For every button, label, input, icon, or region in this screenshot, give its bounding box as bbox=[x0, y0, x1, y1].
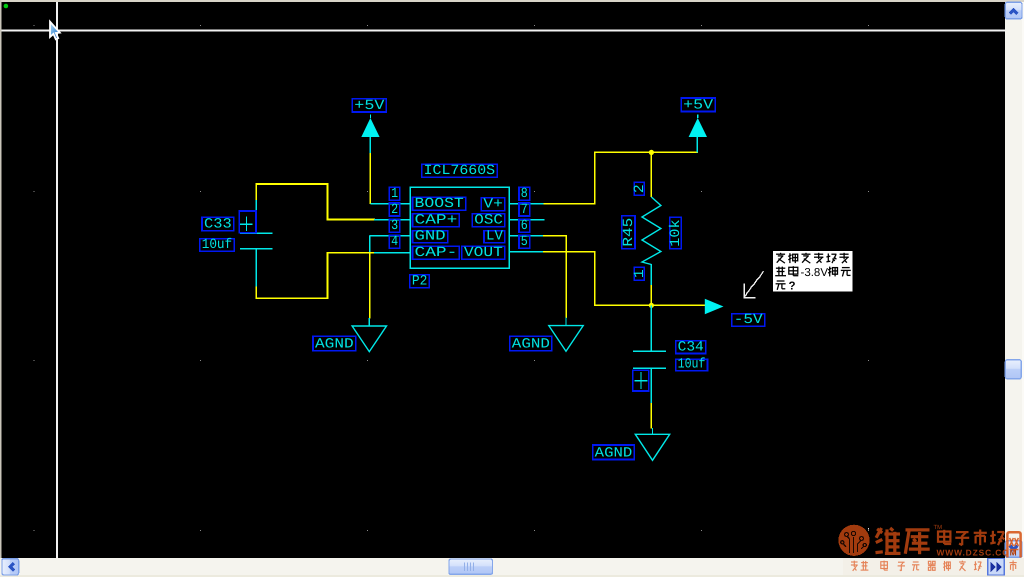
label pin number 3 bbox=[389, 219, 400, 232]
svg-text:2: 2 bbox=[632, 184, 648, 193]
wire junction to C34 bbox=[650, 305, 652, 351]
watermark bottom bar bbox=[843, 558, 1024, 575]
wire LV down to AGND bbox=[565, 235, 567, 318]
C34 polarity + bbox=[633, 370, 649, 391]
svg-text:+5V: +5V bbox=[354, 98, 385, 114]
wire C33 loop lower right vertical bbox=[327, 252, 329, 299]
svg-text:6: 6 bbox=[521, 218, 528, 234]
wire C33 loop upper right vertical bbox=[327, 183, 329, 220]
svg-text:3: 3 bbox=[391, 218, 398, 234]
svg-text:-5V: -5V bbox=[734, 312, 764, 328]
wire +5V left vertical (cyan) bbox=[369, 137, 371, 153]
pin 2 stub CAP+ bbox=[374, 219, 410, 221]
label designator C34 bbox=[676, 341, 706, 354]
pin 5 stub VOUT bbox=[509, 251, 544, 253]
wire C33 top lead upper bbox=[255, 184, 257, 201]
watermark fast-forward icon bbox=[988, 559, 1005, 575]
wire GND pin down (cyan) bbox=[369, 236, 371, 253]
junction node top of R45 bbox=[649, 150, 654, 155]
label designator C33 bbox=[202, 217, 234, 230]
svg-text:-3.8V: -3.8V bbox=[801, 267, 829, 279]
label pin name GND bbox=[413, 231, 448, 243]
svg-text:R45: R45 bbox=[621, 218, 637, 247]
label value 10k (rotated) bbox=[670, 217, 682, 248]
svg-text:2: 2 bbox=[391, 202, 398, 218]
ground AGND (middle, LV net) bbox=[549, 318, 583, 352]
watermark dzsc logo circle bbox=[838, 525, 869, 556]
svg-text:WWW.DZSC.COM: WWW.DZSC.COM bbox=[937, 547, 1018, 557]
svg-text:10k: 10k bbox=[668, 219, 684, 246]
svg-text:+5V: +5V bbox=[683, 97, 714, 113]
label pin name CAP+ bbox=[413, 214, 460, 227]
horizontal scrollbar bbox=[0, 558, 1005, 577]
label pin number 8 bbox=[519, 187, 530, 200]
grid dot over logo bbox=[868, 528, 869, 529]
svg-text:GND: GND bbox=[415, 229, 446, 245]
wire / pin 1 stub BOOST bbox=[370, 203, 410, 205]
wire C33 loop top horizontal bbox=[256, 183, 329, 185]
svg-text:CAP+: CAP+ bbox=[415, 213, 458, 229]
ground AGND (bottom, C34 net) bbox=[635, 428, 669, 460]
wire LV to AGND riser bbox=[543, 235, 567, 237]
left tan window strip bbox=[0, 0, 2, 558]
label net +5V (right) bbox=[681, 98, 715, 112]
annotation note box bbox=[773, 251, 853, 292]
label pin name VOUT bbox=[462, 246, 505, 259]
svg-text:7: 7 bbox=[521, 202, 528, 218]
watermark 电子市场 chars bbox=[938, 530, 951, 544]
wire VOUT right bbox=[543, 251, 596, 253]
ground AGND (left, C33/CAP- net) bbox=[352, 318, 386, 352]
junction node bottom of R45 bbox=[649, 303, 654, 308]
power +5V symbol (left) bbox=[361, 118, 379, 137]
label pin number 7 bbox=[519, 203, 530, 216]
pin 8 stub V+ bbox=[509, 203, 544, 205]
svg-text:AGND: AGND bbox=[315, 336, 354, 352]
label value 10uf (C33) bbox=[200, 239, 235, 252]
wire C33 bottom to pin 4 bbox=[328, 252, 375, 254]
pin 6 stub LV bbox=[509, 235, 544, 237]
label value 10uf (C34) bbox=[676, 359, 708, 371]
wire pin4 node to AGND bbox=[369, 253, 371, 319]
label resistor pin 1 (rotated) bbox=[634, 267, 644, 280]
label pin number 4 bbox=[389, 235, 400, 248]
label net AGND (middle) bbox=[510, 336, 552, 351]
svg-text:?: ? bbox=[789, 281, 796, 293]
resistor R45 top lead bbox=[650, 152, 652, 197]
svg-text:10uf: 10uf bbox=[678, 357, 706, 373]
capacitor C33 bbox=[240, 200, 273, 287]
label pin number 5 bbox=[519, 235, 530, 248]
svg-text:1: 1 bbox=[632, 269, 648, 278]
wire VOUT down bbox=[594, 252, 596, 306]
svg-text:AGND: AGND bbox=[595, 445, 633, 461]
green origin dot bbox=[4, 4, 9, 9]
wire +5V rail right bbox=[594, 151, 698, 153]
svg-text:VOUT: VOUT bbox=[464, 245, 503, 261]
wire +5V left to pin1 (yellow) bbox=[369, 153, 371, 204]
annotation arrow bbox=[744, 271, 763, 298]
watermark 维库 big chars bbox=[876, 528, 901, 554]
label pin number 6 bbox=[519, 219, 530, 232]
capacitor C34 bbox=[633, 351, 666, 404]
wire -5V rail bbox=[594, 304, 706, 306]
label designator R45 (rotated) bbox=[622, 216, 635, 249]
watermark 网 char over scrollbar bbox=[1007, 532, 1020, 557]
wire C34 to AGND bbox=[650, 403, 652, 429]
svg-text:TM: TM bbox=[934, 524, 943, 531]
wire C33 loop bottom horizontal bbox=[256, 297, 329, 299]
svg-text:AGND: AGND bbox=[512, 336, 550, 352]
label net AGND (left) bbox=[313, 336, 356, 350]
label pin name V+ bbox=[481, 198, 505, 211]
wire to pin 2 bbox=[328, 219, 375, 221]
resistor R45 bottom lead (yellow) bbox=[650, 285, 652, 305]
label pin name OSC bbox=[472, 214, 505, 227]
label pin name LV bbox=[484, 231, 505, 243]
C33 polarity + bbox=[239, 211, 256, 233]
label pin number 1 bbox=[389, 187, 400, 200]
svg-text:LV: LV bbox=[486, 229, 503, 245]
svg-text:OSC: OSC bbox=[474, 213, 503, 229]
label pin name CAP- bbox=[413, 246, 460, 259]
label net +5V (left) bbox=[352, 99, 386, 112]
resistor R45 zigzag bbox=[642, 197, 661, 265]
label designator P2 bbox=[410, 275, 430, 288]
label pin name BOOST bbox=[413, 197, 466, 210]
svg-text:8: 8 bbox=[521, 186, 528, 202]
wire C33 bottom lead lower bbox=[255, 286, 257, 299]
svg-text:BOOST: BOOST bbox=[415, 196, 464, 212]
top tan window strip bbox=[0, 0, 1024, 2]
svg-text:ICL7660S: ICL7660S bbox=[424, 163, 496, 179]
port -5V arrow bbox=[705, 299, 724, 315]
svg-text:5: 5 bbox=[521, 234, 528, 250]
wire +5V right vertical (cyan) bbox=[696, 137, 698, 152]
svg-text:10uf: 10uf bbox=[202, 237, 233, 253]
wire pin8 to riser bbox=[544, 203, 596, 205]
pin 4 stub CAP- bbox=[374, 252, 410, 254]
pin 7 stub OSC bbox=[509, 219, 544, 221]
label net -5V bbox=[732, 314, 765, 327]
sheet top border line bbox=[2, 30, 1005, 32]
svg-text:CAP-: CAP- bbox=[415, 245, 458, 261]
label net AGND (bottom) bbox=[593, 445, 635, 460]
svg-text:1: 1 bbox=[391, 186, 398, 202]
power +5V symbol (right) bbox=[689, 118, 707, 137]
svg-text:P2: P2 bbox=[412, 274, 428, 290]
label part type ICL7660S bbox=[422, 164, 498, 177]
label resistor pin 2 (rotated) bbox=[634, 182, 644, 195]
svg-text:C33: C33 bbox=[204, 217, 232, 233]
svg-text:V+: V+ bbox=[483, 196, 503, 212]
pin 3 stub GND + wire bbox=[370, 235, 410, 237]
resistor R45 bottom lead (cyan) bbox=[650, 264, 652, 285]
wire riser to +5V rail bbox=[594, 152, 596, 205]
label pin number 2 bbox=[389, 203, 400, 216]
op-amp / charge pump IC P2 ICL7660S body bbox=[410, 187, 509, 268]
svg-text:C34: C34 bbox=[678, 339, 704, 355]
sheet left border line bbox=[56, 2, 58, 558]
svg-text:4: 4 bbox=[391, 234, 398, 250]
